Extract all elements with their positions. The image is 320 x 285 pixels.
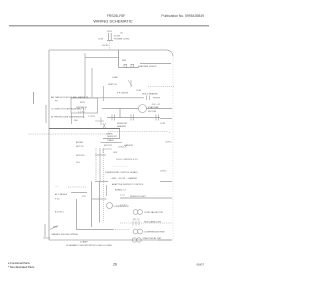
svg-text:CON 5: CON 5	[160, 171, 167, 173]
svg-text:P 10: P 10	[55, 199, 60, 201]
svg-text:FRS26LF8F: FRS26LF8F	[107, 14, 125, 18]
wire: timer output line	[101, 142, 123, 144]
svg-text:THERMOSTAT CONTROL BOARD: THERMOSTAT CONTROL BOARD	[105, 171, 138, 174]
svg-text:CON 4: CON 4	[165, 142, 172, 144]
condenser fan motor M2	[133, 210, 138, 215]
svg-text:CON: CON	[160, 123, 165, 125]
freezer light circuit wire	[140, 63, 171, 65]
wire: compressor feed line	[92, 198, 107, 200]
svg-text:AUGER: AUGER	[76, 141, 84, 144]
svg-text:WTR: WTR	[80, 102, 85, 104]
svg-text:AB THRU-DOOR ICE AND WATER [*]: AB THRU-DOOR ICE AND WATER [*]	[51, 96, 89, 99]
wire: ADC feed line	[95, 181, 108, 183]
svg-text:~ ~ ~ ~ ~ ~ ~ ~ ~: ~ ~ ~ ~ ~ ~ ~ ~ ~	[113, 166, 129, 168]
svg-text:LIGHT: LIGHT	[112, 77, 119, 79]
defrost thermostat TS1	[112, 115, 115, 121]
svg-text:26: 26	[113, 263, 117, 267]
wire: solid end of bottom row	[158, 239, 172, 241]
dashed branch to right rail	[148, 86, 174, 88]
svg-text:15 AMP: 15 AMP	[80, 241, 88, 244]
wire: solid stub into compressor zone	[71, 192, 87, 194]
wire: inner dashed vertical (mullion)	[84, 53, 86, 97]
wire: solid feeder	[49, 128, 120, 130]
wire: inner dashed horizontal	[85, 57, 118, 59]
wire: stub below connector	[71, 113, 73, 124]
wire: stub inside connector	[83, 108, 85, 118]
header rule	[9, 24, 209, 27]
svg-text:CON: CON	[136, 90, 141, 92]
svg-text:GD: GD	[120, 33, 124, 35]
wire: timer L-bend	[103, 129, 120, 139]
svg-text:MOTOR: MOTOR	[148, 111, 157, 113]
start relay SR1 on bottom line	[132, 238, 136, 242]
wire: dashed verticals into ADC	[95, 148, 97, 181]
svg-text:06/07: 06/07	[196, 263, 204, 267]
svg-text:A 1 DPa L: A 1 DPa L	[55, 211, 65, 214]
svg-text:WTR VLV: WTR VLV	[76, 155, 85, 157]
wire: short left rail	[45, 105, 47, 123]
svg-text:DEFROST: DEFROST	[107, 136, 118, 138]
svg-text:RUN CAPACITOR: RUN CAPACITOR	[144, 221, 162, 224]
svg-text:MOTOR: MOTOR	[76, 146, 84, 148]
adaptive defrost control ADC block	[103, 149, 112, 153]
svg-text:L 1 2: L 1 2	[120, 195, 125, 197]
wire: cabinet left dashed rail	[48, 50, 50, 240]
capacitor plates on mold heater line	[147, 96, 150, 101]
ground lead switch SW3	[50, 226, 58, 230]
svg-text:POWER CORD: POWER CORD	[114, 39, 130, 41]
ice maker connector block J1	[71, 98, 98, 113]
wire: feed vertical	[118, 50, 120, 68]
compressor motor M3	[76, 199, 78, 230]
svg-text:DEFROST: DEFROST	[117, 123, 128, 125]
svg-text:SOL: SOL	[76, 162, 81, 164]
svg-text:GRN: GRN	[53, 227, 58, 229]
svg-text:Publication No. 5995439849: Publication No. 5995439849	[161, 14, 204, 18]
wire: branch line to ice maker	[71, 97, 144, 99]
defrost thermostat TS2	[131, 115, 134, 121]
svg-text:WH: WH	[74, 120, 78, 122]
svg-text:BOARD L-1: BOARD L-1	[115, 188, 127, 191]
wire: line circuit row 1	[120, 197, 172, 199]
svg-text:HEATER: HEATER	[117, 125, 126, 128]
svg-text:WIRING SCHEMATIC: WIRING SCHEMATIC	[93, 19, 132, 24]
svg-text:PTC: PTC	[82, 196, 87, 198]
svg-text:WH - OR: WH - OR	[152, 104, 161, 106]
svg-text:CABINET GROUND WIRING: CABINET GROUND WIRING	[51, 233, 78, 236]
node: cross junction	[95, 117, 104, 125]
svg-text:COND FAN MOTOR: COND FAN MOTOR	[144, 211, 164, 214]
svg-text:COMPRESSOR: COMPRESSOR	[114, 206, 130, 208]
svg-text:EVAP FAN: EVAP FAN	[148, 106, 159, 109]
wire: dashed circuit row 2	[120, 222, 172, 224]
svg-text:BL PRESS/CUBE DISPENSER [*]: BL PRESS/CUBE DISPENSER [*]	[51, 117, 85, 119]
svg-text:FREEZER LIGHTS: FREEZER LIGHTS	[138, 66, 157, 68]
svg-text:CON: CON	[98, 39, 103, 41]
defrost heater R1	[103, 123, 106, 128]
defrost heater terminal T3	[156, 115, 159, 121]
svg-text:SWITCH: SWITCH	[108, 84, 117, 86]
svg-text:DEFROST LIMIT: DEFROST LIMIT	[130, 196, 147, 198]
wire: dotted tie line left	[28, 133, 108, 135]
wire: cabinet bottom dashed edge	[49, 239, 172, 241]
power cord plug P1 115V 60Hz	[107, 33, 113, 41]
wire: inner dashed vertical 2	[91, 68, 93, 97]
svg-text:COMPRESSOR RSIR: COMPRESSOR RSIR	[144, 232, 165, 234]
connector pin stub CON3	[103, 86, 105, 101]
svg-text:TIMER: TIMER	[107, 140, 114, 142]
evaporator fan motor M1	[102, 108, 138, 110]
svg-text:- - AIR - - FLOW - - DAMPER: - - AIR - - FLOW - - DAMPER	[110, 177, 138, 180]
wire: ground stub	[43, 237, 50, 239]
svg-text:115V: 115V	[107, 31, 112, 33]
svg-text:F F LIGHTS: F F LIGHTS	[117, 93, 129, 95]
svg-text:COLD CONTROL 4 5 6: COLD CONTROL 4 5 6	[116, 159, 138, 161]
svg-text:PV: PV	[55, 101, 58, 103]
wire: dashed stub into compressor zone	[68, 186, 87, 188]
svg-text:1 2 3 4: 1 2 3 4	[78, 112, 85, 114]
svg-text:SCHEMATIC SHOWN WITH DOORS CLO: SCHEMATIC SHOWN WITH DOORS CLOSED	[66, 244, 113, 247]
wire: cold control feed	[95, 154, 106, 156]
svg-text:CO SWITCH LIGHT ASSEMBLY [..]: CO SWITCH LIGHT ASSEMBLY [..]	[51, 108, 86, 111]
svg-text:OFF: OFF	[113, 152, 118, 154]
svg-text:AT 2-PA BLA: AT 2-PA BLA	[55, 193, 68, 196]
svg-text:WH BK: WH BK	[102, 45, 109, 47]
wire: plug drop to cabinet	[109, 41, 111, 50]
freezer light door switch contacts SW1	[119, 67, 140, 69]
svg-text:z: z	[169, 132, 170, 134]
defrost circuit wire	[107, 117, 160, 119]
wire: cabinet enclosure dashed top edge	[49, 50, 173, 56]
svg-text:- - -: - - -	[55, 186, 59, 188]
wire: vertical stub	[106, 185, 108, 196]
svg-text:* Non-Illustrated Parts: * Non-Illustrated Parts	[8, 265, 35, 269]
svg-text:FRZ: FRZ	[122, 60, 127, 62]
wire: dotted tie line right	[108, 131, 168, 133]
svg-text:60 HZ.: 60 HZ.	[114, 36, 121, 38]
wire: cabinet right dashed rail	[172, 56, 174, 240]
compressor overload OL1	[133, 229, 138, 234]
svg-text:MOLD HEATER: MOLD HEATER	[142, 93, 158, 96]
wire drop	[119, 109, 121, 118]
svg-text:ADAPTIVE DEFROST CONTROL: ADAPTIVE DEFROST CONTROL	[112, 183, 144, 186]
svg-text:MOTOR: MOTOR	[104, 145, 112, 147]
svg-text:HARVEST: HARVEST	[124, 144, 134, 147]
svg-text:C CON: C CON	[88, 116, 95, 118]
svg-text:e Functional Parts: e Functional Parts	[8, 261, 30, 265]
legend tick mark	[33, 92, 35, 104]
